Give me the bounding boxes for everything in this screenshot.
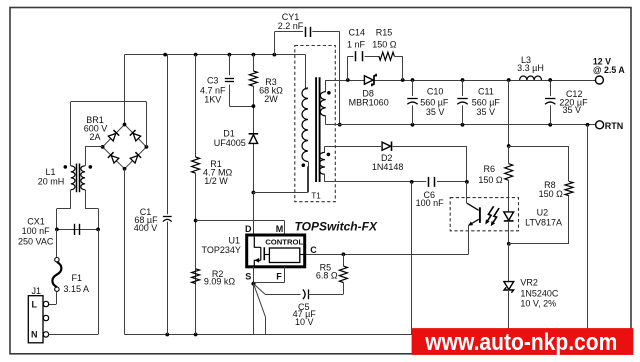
svg-text:1KV: 1KV [204,94,221,104]
svg-text:560 µF: 560 µF [420,97,449,107]
svg-text:R6: R6 [484,164,496,174]
svg-text:MBR1060: MBR1060 [349,98,389,108]
svg-text:C11: C11 [478,87,494,97]
svg-text:1/2 W: 1/2 W [204,176,228,186]
svg-text:150 Ω: 150 Ω [478,175,503,185]
svg-text:C3: C3 [207,76,219,86]
svg-text:D: D [245,224,252,234]
svg-text:35 V: 35 V [563,105,582,115]
svg-text:10 V, 2%: 10 V, 2% [520,298,556,308]
svg-text:F1: F1 [72,273,83,283]
svg-text:J1: J1 [31,286,41,296]
svg-text:U2: U2 [537,208,549,218]
svg-text:R15: R15 [376,28,393,38]
svg-text:2.2 nF: 2.2 nF [278,21,304,31]
svg-text:2W: 2W [264,94,278,104]
svg-text:560 µF: 560 µF [472,97,501,107]
svg-text:CX1: CX1 [27,216,45,226]
svg-text:RTN: RTN [605,121,624,131]
svg-text:6.8 Ω: 6.8 Ω [316,271,338,281]
svg-text:D1: D1 [223,129,235,139]
svg-text:35 V: 35 V [426,107,445,117]
svg-text:150 Ω: 150 Ω [372,39,397,49]
svg-text:www.auto-nkp.com: www.auto-nkp.com [424,329,617,356]
svg-text:150 Ω: 150 Ω [539,189,564,199]
svg-text:9.09 kΩ: 9.09 kΩ [204,277,236,287]
svg-text:N: N [31,329,38,339]
svg-text:T1: T1 [311,192,321,201]
svg-text:C: C [310,245,317,255]
svg-text:@ 2.5 A: @ 2.5 A [593,65,625,75]
svg-text:100 nF: 100 nF [416,198,445,208]
svg-text:L1: L1 [45,167,55,177]
svg-text:1N5240C: 1N5240C [520,288,559,298]
svg-text:L: L [32,299,38,309]
svg-text:250 VAC: 250 VAC [18,237,54,247]
svg-text:VR2: VR2 [520,278,538,288]
svg-text:S: S [245,272,251,282]
svg-text:100 nF: 100 nF [22,226,51,236]
svg-text:TOPSwitch-FX: TOPSwitch-FX [295,220,378,234]
svg-text:10 V: 10 V [295,317,314,327]
svg-text:20 mH: 20 mH [38,177,65,187]
svg-text:C14: C14 [348,28,365,38]
svg-text:F: F [276,272,282,282]
svg-text:LTV817A: LTV817A [525,217,562,227]
svg-text:400 V: 400 V [134,223,158,233]
svg-text:CONTROL: CONTROL [265,237,303,246]
svg-text:35 V: 35 V [477,107,496,117]
svg-text:2A: 2A [89,132,100,142]
svg-text:3.3 µH: 3.3 µH [517,63,544,73]
svg-text:C10: C10 [427,87,444,97]
svg-text:M: M [276,224,284,234]
svg-text:UF4005: UF4005 [214,138,246,148]
svg-text:3.15 A: 3.15 A [64,284,90,294]
svg-text:1 nF: 1 nF [347,39,366,49]
svg-text:1N4148: 1N4148 [372,162,404,172]
svg-text:TOP234Y: TOP234Y [202,245,241,255]
